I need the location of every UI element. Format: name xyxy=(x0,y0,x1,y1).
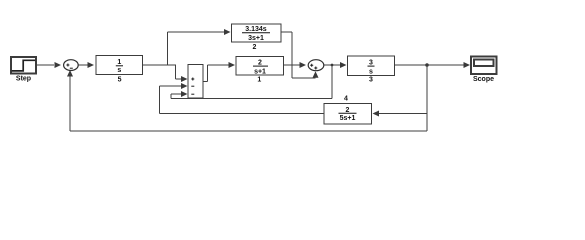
svg-text:Step: Step xyxy=(16,76,31,83)
svg-text:3: 3 xyxy=(369,76,373,83)
svg-text:s+1: s+1 xyxy=(254,68,266,75)
svg-text:1: 1 xyxy=(117,59,121,66)
svg-text:s: s xyxy=(369,68,373,75)
svg-text:5: 5 xyxy=(118,76,122,83)
svg-text:2: 2 xyxy=(253,44,257,51)
svg-text:Scope: Scope xyxy=(473,76,494,83)
svg-text:3s+1: 3s+1 xyxy=(248,35,264,42)
svg-text:3: 3 xyxy=(369,60,373,67)
svg-text:s: s xyxy=(117,67,121,74)
svg-text:3.134s: 3.134s xyxy=(245,26,267,33)
svg-text:4: 4 xyxy=(344,96,348,103)
svg-text:5s+1: 5s+1 xyxy=(340,115,356,122)
svg-text:1: 1 xyxy=(257,76,261,83)
svg-text:2: 2 xyxy=(258,60,262,67)
